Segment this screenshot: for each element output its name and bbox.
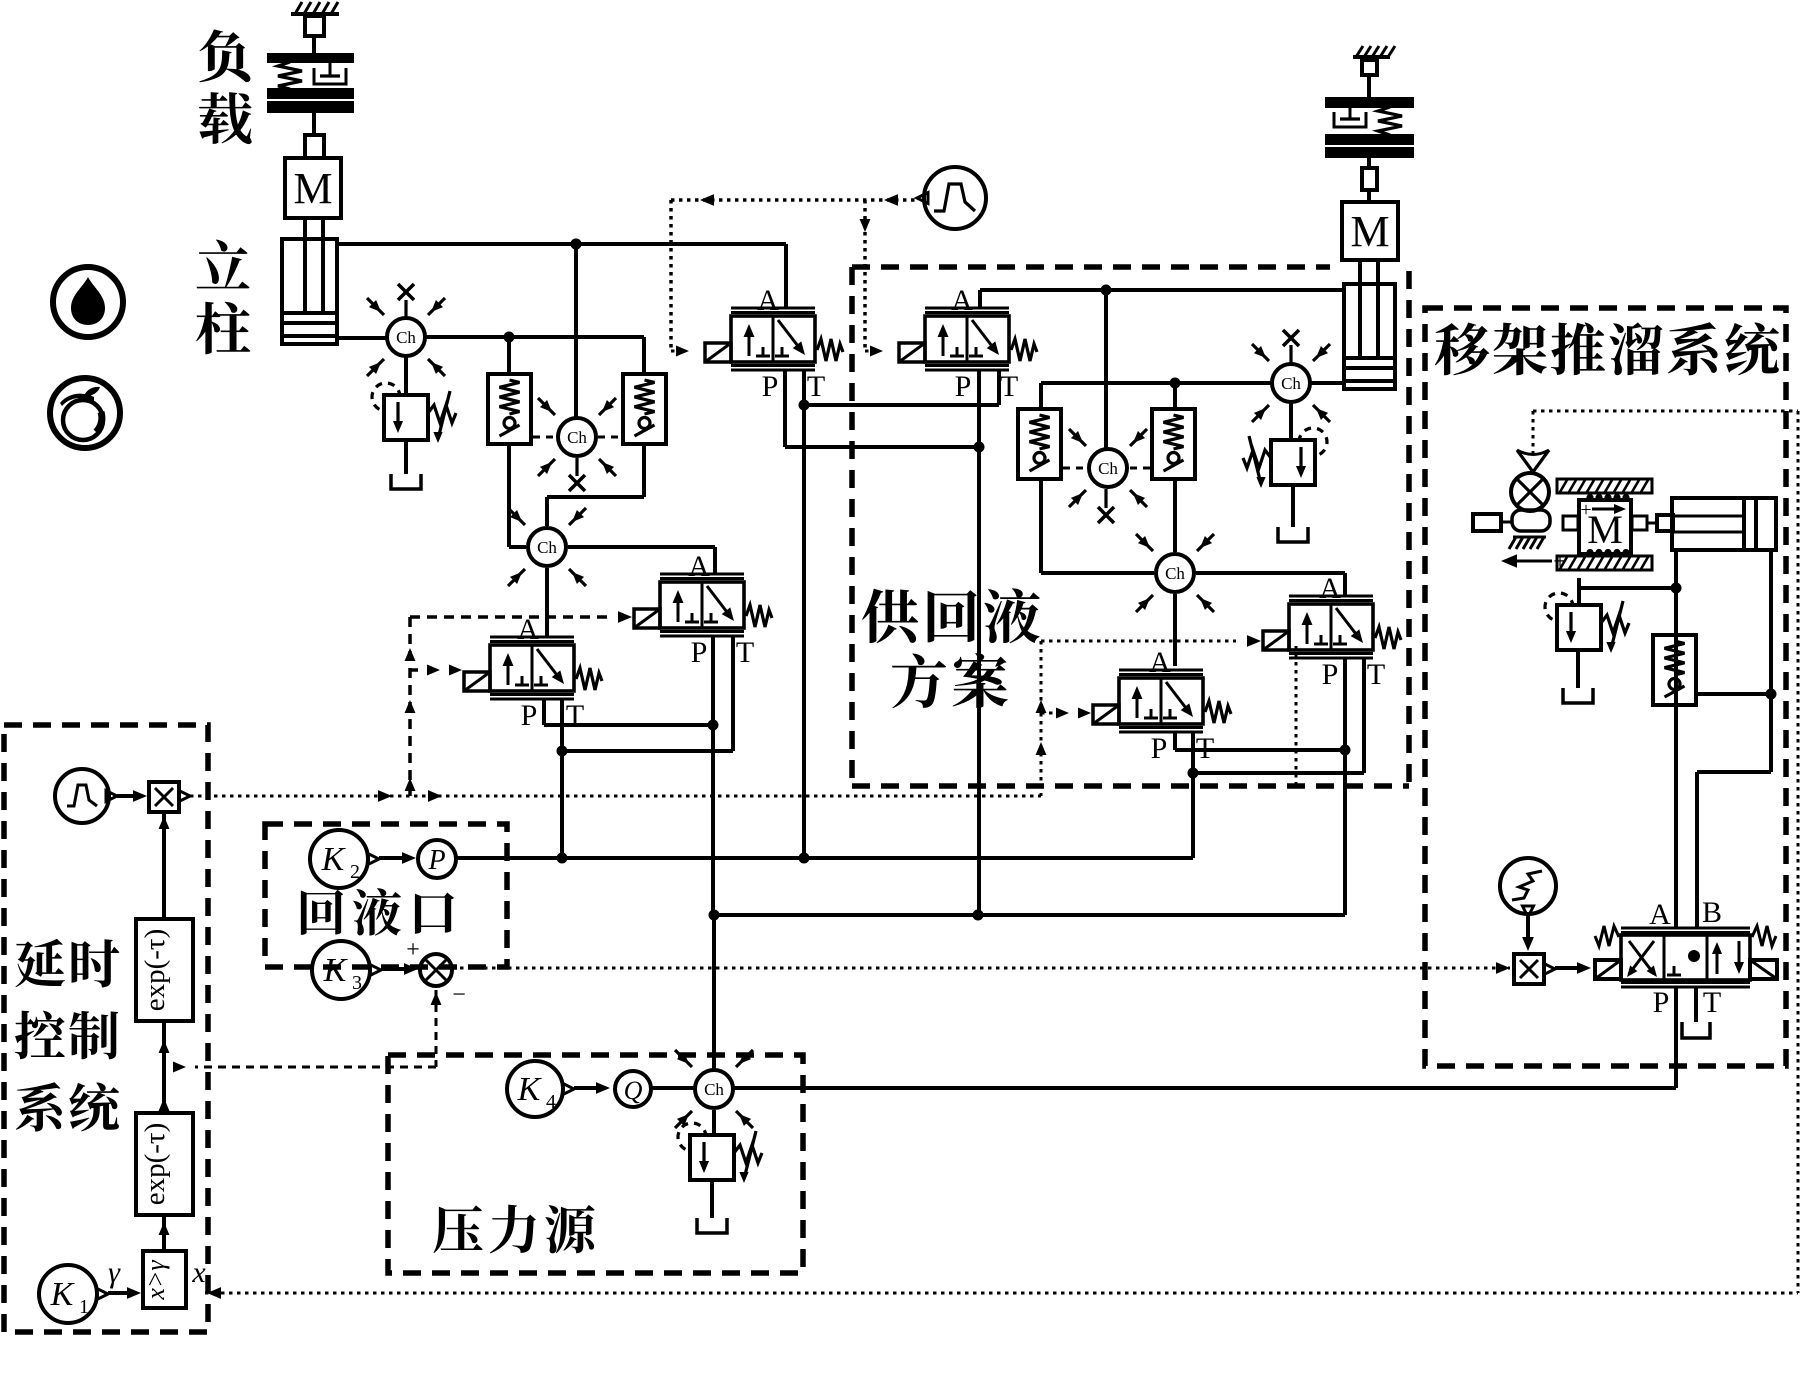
pilot line (CB3-Ch4-CB4) bbox=[1063, 467, 1086, 470]
wire bbox=[1367, 75, 1371, 98]
wire (cyl rod port to 4/3 valve B) bbox=[1769, 550, 1773, 772]
wire bbox=[710, 1180, 714, 1218]
wire (Ch6 to V5 A) bbox=[1196, 571, 1345, 575]
wire (branch to relief RV4) bbox=[1579, 586, 1676, 590]
svg-text:+: + bbox=[406, 937, 420, 963]
rod block left bbox=[305, 135, 324, 158]
signal source S3 (ramp) bbox=[1500, 858, 1556, 914]
pilot line (down to V1 solenoid) bbox=[669, 200, 673, 351]
svg-text:P: P bbox=[1151, 732, 1168, 765]
wire (T link to V3) bbox=[562, 749, 733, 753]
cylinder (立柱 column) left bbox=[282, 239, 337, 344]
wire (V1 T down to return line) bbox=[802, 370, 806, 858]
wire bbox=[1367, 157, 1371, 168]
wire bbox=[1367, 190, 1371, 202]
signal wire (comparator to exp2) bbox=[162, 1215, 166, 1251]
wire (Q to Ch7) bbox=[651, 1086, 694, 1090]
label 供回液方案 bbox=[862, 589, 918, 644]
svg-text:2: 2 bbox=[350, 861, 360, 883]
pump (crossed circle) bbox=[1511, 473, 1549, 511]
tank T4 bbox=[1563, 688, 1593, 703]
svg-text:A: A bbox=[1649, 898, 1671, 931]
watermark drop icon bbox=[53, 267, 123, 337]
svg-text:A: A bbox=[951, 284, 973, 317]
node (P junction V1/V2) bbox=[974, 442, 985, 453]
svg-text:1: 1 bbox=[79, 1296, 89, 1318]
wire bbox=[642, 337, 646, 374]
pilot check valve CB3 bbox=[1018, 409, 1061, 479]
svg-text:−: − bbox=[452, 982, 466, 1008]
wire (pump riser) bbox=[712, 915, 716, 1070]
supply line to 4/3 valve bbox=[733, 1086, 1676, 1090]
signal wire (exp2 to exp1) bbox=[162, 1021, 166, 1113]
V7 solenoid right bbox=[1750, 960, 1777, 979]
svg-text:3: 3 bbox=[352, 972, 362, 994]
signal line (S1 to valve pilots) bbox=[671, 198, 917, 202]
wire (V3 T down) bbox=[731, 636, 735, 751]
wire (Ch5 to relief RV2) bbox=[1289, 402, 1293, 440]
label 延时控制系统 bbox=[15, 939, 64, 987]
svg-text:T: T bbox=[1367, 658, 1385, 691]
wire (check boxes line to cylinder) bbox=[1041, 381, 1272, 385]
signal line (flow feedback to sum) bbox=[435, 990, 438, 1067]
pilot line (CB1-Ch2-CB2) bbox=[533, 436, 556, 439]
pilot line (to V6 solenoid) bbox=[1056, 708, 1069, 719]
svg-text:P: P bbox=[521, 699, 538, 732]
wire (CB2 to Ch3) bbox=[642, 444, 646, 497]
pilot check valve CB5 bbox=[1653, 635, 1696, 705]
check element Ch1 bbox=[387, 318, 425, 356]
svg-text:A: A bbox=[757, 284, 779, 317]
gain block K4 bbox=[507, 1061, 563, 1117]
spring (load suspension left) bbox=[278, 62, 302, 89]
guide rail top (hatched) bbox=[1557, 479, 1652, 493]
signal arrow (M2 to 4/3 valve) bbox=[1555, 966, 1577, 970]
spring (load suspension right) bbox=[1378, 107, 1402, 135]
wire (down to check-valve chain) bbox=[574, 244, 578, 418]
wire (T link to V5) bbox=[1193, 771, 1364, 775]
wire bbox=[1173, 383, 1177, 409]
svg-text:P: P bbox=[762, 370, 779, 403]
motion arrow (left, +) bbox=[1509, 560, 1552, 563]
pilot line (vertical to V3/V4 pilots) bbox=[408, 617, 412, 796]
wire bbox=[1039, 383, 1043, 409]
solenoid valve V3 bbox=[660, 582, 744, 628]
wire (V5 T down) bbox=[1362, 658, 1366, 773]
cylinder (column) right bbox=[1344, 284, 1395, 389]
svg-text:Ch: Ch bbox=[567, 428, 587, 447]
wire bbox=[1576, 650, 1580, 688]
solenoid valve V6 bbox=[1119, 678, 1203, 724]
svg-text:T: T bbox=[807, 370, 825, 403]
delay block exp(-tau) upper bbox=[136, 919, 193, 1021]
signal line (M1 output, delayed opening command) bbox=[190, 795, 1041, 798]
node (branch to Ch4) bbox=[1101, 285, 1112, 296]
signal wire (exp1 to M1) bbox=[162, 812, 166, 919]
svg-text:M: M bbox=[1587, 507, 1623, 552]
wire (V4 T down) bbox=[560, 699, 564, 858]
wire bbox=[1291, 485, 1295, 527]
svg-text:K: K bbox=[323, 952, 349, 989]
svg-text:K: K bbox=[50, 1276, 76, 1313]
wire (V4 P to V3 P junction) bbox=[542, 699, 546, 725]
svg-text:K: K bbox=[321, 841, 347, 878]
summing junction bbox=[420, 954, 452, 986]
dashed box 移架推溜系统 bbox=[1425, 308, 1786, 1066]
node (T junction V3/V4) bbox=[557, 746, 568, 757]
pilot line (to V3 solenoid) bbox=[410, 615, 608, 619]
blocked port X above Ch1 bbox=[404, 300, 407, 318]
svg-text:P: P bbox=[691, 636, 708, 669]
wire (Ch1 to relief valve RV1) bbox=[404, 356, 408, 395]
svg-text:γ: γ bbox=[108, 1256, 121, 1289]
tank T2 bbox=[1278, 527, 1308, 542]
svg-text:M: M bbox=[293, 164, 332, 213]
signal line (sum output) bbox=[452, 967, 1510, 970]
svg-text:Ch: Ch bbox=[396, 328, 416, 347]
svg-text:Ch: Ch bbox=[537, 538, 557, 557]
wire (V2 P down to main line) bbox=[977, 370, 981, 915]
comparator block x>gamma bbox=[143, 1251, 186, 1308]
guide rail bottom (hatched) bbox=[1557, 556, 1652, 570]
pilot line (to V4 solenoid) bbox=[427, 665, 440, 676]
signal source S2 (pulse) bbox=[55, 769, 109, 823]
check element Ch4 bbox=[1089, 449, 1127, 487]
solenoid valve V2 bbox=[925, 316, 1009, 362]
damper (load left) bbox=[329, 62, 332, 76]
V7 solenoid left bbox=[1595, 960, 1621, 979]
node bbox=[1766, 689, 1777, 700]
wire (V2 A to right cylinder) bbox=[978, 290, 982, 308]
svg-text:Ch: Ch bbox=[1098, 459, 1118, 478]
V7 left cell crossed arrows bbox=[1629, 941, 1654, 974]
signal arrow (K1 to comparator) bbox=[108, 1291, 128, 1295]
label 移架推溜系统 bbox=[1435, 323, 1489, 376]
wire bbox=[507, 337, 511, 374]
signal arrow (K2 to P) bbox=[379, 856, 404, 860]
ground hatch (pump) bbox=[1513, 536, 1546, 539]
node bbox=[1671, 583, 1682, 594]
node bbox=[557, 853, 568, 864]
piston rod right cylinder bbox=[1358, 260, 1362, 358]
pump body capsule bbox=[1512, 510, 1550, 531]
ground (fixed support, left load) bbox=[291, 12, 339, 16]
wire bbox=[312, 112, 316, 135]
check element Ch5 bbox=[1272, 364, 1310, 402]
node (P junction V5/V6) bbox=[1340, 745, 1351, 756]
wire (Ch7 to relief RV3) bbox=[712, 1110, 716, 1135]
load mass plates left bbox=[268, 54, 353, 62]
solenoid valve V1 bbox=[731, 316, 815, 362]
blocked port X below Ch4 bbox=[1104, 489, 1107, 508]
guide shoe left bbox=[1563, 516, 1578, 530]
wire (CB1 to Ch3) bbox=[507, 444, 511, 547]
tank T5 bbox=[1682, 1022, 1710, 1038]
flow source Q bbox=[615, 1071, 651, 1107]
svg-text:exp(-τ): exp(-τ) bbox=[139, 929, 171, 1012]
V7 spring right bbox=[1752, 926, 1776, 946]
node bbox=[709, 910, 720, 921]
svg-text:Ch: Ch bbox=[1281, 374, 1301, 393]
pilot check valve CB4 bbox=[1152, 409, 1195, 479]
dashed box 供回液方案 bbox=[849, 267, 855, 786]
dotted enclosure (V6 pilot group, right edge) bbox=[1295, 646, 1298, 786]
V7 centre cell blocked bbox=[1667, 974, 1681, 977]
node bbox=[973, 910, 984, 921]
V7 right cell arrows bbox=[1716, 947, 1719, 974]
check element Ch6 bbox=[1156, 554, 1194, 592]
wire (V6 T down) bbox=[1191, 732, 1195, 858]
relief valve RV1 bbox=[384, 395, 428, 440]
solenoid valve V4 bbox=[490, 645, 574, 691]
position feedback line (x input) bbox=[205, 1292, 1798, 1295]
wire (cylinder top port to valve V1 A) bbox=[337, 242, 786, 246]
wire (CB3 to Ch6) bbox=[1039, 478, 1043, 573]
svg-text:M: M bbox=[1350, 207, 1389, 256]
piston rod left cylinder bbox=[303, 218, 307, 313]
pilot line (vertical to V5/V6 pilots) bbox=[1040, 641, 1043, 796]
wire (Ch6 to V6 A) bbox=[1173, 594, 1177, 666]
svg-text:x>γ: x>γ bbox=[141, 1260, 170, 1301]
svg-text:Ch: Ch bbox=[1165, 564, 1185, 583]
node (branch to Ch chain) bbox=[571, 239, 582, 250]
node (check box CB1 tap) bbox=[504, 332, 515, 343]
gain block K3 bbox=[312, 941, 370, 999]
check element Ch7 (pump port) bbox=[695, 1070, 733, 1108]
pressure sensor P bbox=[418, 840, 456, 878]
svg-text:P: P bbox=[1653, 986, 1670, 1019]
relief valve RV4 bbox=[1557, 605, 1601, 650]
wire bbox=[312, 36, 316, 54]
dashed box 压力源 bbox=[388, 1055, 803, 1273]
svg-text:exp(-τ): exp(-τ) bbox=[139, 1123, 171, 1206]
svg-text:B: B bbox=[1702, 896, 1722, 929]
wire bbox=[404, 440, 408, 474]
svg-text:P: P bbox=[427, 845, 445, 876]
pilot line (down to V2 solenoid) bbox=[863, 200, 867, 351]
V7 spring left bbox=[1595, 926, 1619, 946]
return line (to 回液口 P sensor) bbox=[456, 856, 1193, 860]
node (T junction V5/V6) bbox=[1188, 768, 1199, 779]
pump anchor block bbox=[1473, 514, 1501, 531]
wire (V1 P down) bbox=[783, 370, 787, 447]
svg-text:T: T bbox=[1000, 370, 1018, 403]
multiplier M2 bbox=[1514, 954, 1544, 984]
relief valve RV2 bbox=[1271, 440, 1315, 485]
relief valve RV3 bbox=[690, 1135, 734, 1180]
watermark apple icon bbox=[50, 378, 120, 448]
mass M right bbox=[1342, 202, 1398, 260]
linear motor M (support) bbox=[1579, 500, 1631, 554]
wire (V7 T to tank) bbox=[1694, 987, 1698, 1022]
wire (Ch3 to valve V4 A) bbox=[545, 568, 549, 637]
wire (P line down to main line) bbox=[711, 725, 715, 915]
blocked port X below Ch2 bbox=[575, 458, 578, 476]
wire (P link V1-V2) bbox=[785, 445, 979, 449]
check element Ch3 bbox=[528, 528, 566, 566]
label 立柱 (column) bbox=[197, 240, 250, 289]
gain block K2 bbox=[310, 830, 368, 888]
load mass plates right bbox=[1326, 98, 1413, 107]
wire (cylinder bottom port to Ch1) bbox=[337, 336, 387, 340]
tank T3 bbox=[697, 1218, 727, 1233]
svg-text:P: P bbox=[955, 370, 972, 403]
node (CB4 tap) bbox=[1170, 378, 1181, 389]
multiplier M1 bbox=[149, 782, 179, 812]
pilot check valve CB2 bbox=[623, 374, 666, 444]
main pressure line bbox=[714, 913, 1345, 917]
node (T junction V1/V2) bbox=[799, 400, 810, 411]
wire (V2 T link) bbox=[997, 370, 1001, 405]
wire (V6 P to V5 P junction) bbox=[1173, 732, 1177, 750]
wire (cyl bottom port down) bbox=[1674, 550, 1678, 588]
signal arrow (K3 to sum) bbox=[381, 967, 404, 971]
signal source S1 (pulse) bbox=[924, 167, 986, 229]
pilot tap line (CB5) bbox=[1698, 692, 1771, 696]
svg-text:Q: Q bbox=[624, 1076, 643, 1105]
pilot line (to V5 solenoid) bbox=[1041, 640, 1236, 643]
pilot check valve CB1 bbox=[488, 374, 531, 444]
signal arrow (K4 to Q) bbox=[574, 1086, 597, 1090]
svg-text:T: T bbox=[566, 699, 584, 732]
svg-text:4: 4 bbox=[546, 1091, 556, 1113]
node bbox=[571, 239, 582, 250]
dashed box 回液口 bbox=[265, 824, 507, 967]
label 负载 (load) bbox=[199, 29, 250, 82]
solenoid valve V5 bbox=[1289, 604, 1373, 650]
wire (check to 4/3 valve A) bbox=[1674, 588, 1678, 928]
svg-text:T: T bbox=[1703, 986, 1721, 1019]
push cylinder (推溜千斤顶) bbox=[1672, 498, 1776, 550]
svg-text:A: A bbox=[1149, 646, 1171, 679]
node (P junction V3/V4) bbox=[708, 720, 719, 731]
wire (CB4 to Ch6) bbox=[1173, 478, 1177, 552]
gain block K1 bbox=[39, 1265, 97, 1323]
svg-text:A: A bbox=[1319, 572, 1341, 605]
signal arrow (S3 to multiplier M2) bbox=[1526, 917, 1530, 938]
label 回液口 bbox=[301, 890, 343, 935]
push cylinder rod block bbox=[1657, 515, 1673, 531]
node bbox=[799, 853, 810, 864]
delay block exp(-tau) lower bbox=[136, 1113, 193, 1215]
svg-text:Ch: Ch bbox=[704, 1080, 724, 1099]
svg-text:+: + bbox=[1580, 499, 1591, 521]
tank T1 bbox=[391, 474, 421, 489]
svg-text:A: A bbox=[688, 550, 710, 583]
wire (V3 P down) bbox=[711, 636, 715, 725]
signal line (sum to M2) bbox=[1496, 962, 1510, 974]
wire (Ch3 to valve V3 A) bbox=[568, 545, 715, 549]
ground (fixed support, right load) bbox=[1353, 55, 1390, 59]
wire (rod link) bbox=[1647, 522, 1657, 525]
check element Ch2 bbox=[558, 418, 596, 456]
svg-text:K: K bbox=[517, 1071, 543, 1108]
mass M left bbox=[285, 158, 341, 218]
wire (Ch1 to check boxes) bbox=[425, 335, 644, 339]
rod block right bbox=[1362, 168, 1377, 190]
damper (load right) bbox=[1349, 107, 1352, 119]
label 压力源 bbox=[434, 1205, 483, 1253]
load anchor block left bbox=[305, 16, 324, 36]
guide shoe right bbox=[1632, 516, 1647, 530]
proportional valve V7 body bbox=[1621, 935, 1750, 980]
svg-text:P: P bbox=[1322, 658, 1339, 691]
pump suction funnel bbox=[1517, 450, 1549, 472]
load anchor block right bbox=[1362, 60, 1377, 75]
dashed box 延时控制系统 bbox=[4, 725, 208, 1332]
blocked port X above Ch5 bbox=[1289, 345, 1292, 364]
signal arrow (S2 to multiplier) bbox=[117, 794, 134, 798]
wire (V2 A line down branch to Ch4) bbox=[1104, 290, 1108, 449]
svg-text:x: x bbox=[191, 1256, 206, 1289]
svg-text:T: T bbox=[736, 636, 754, 669]
wire (V5 P down) bbox=[1343, 658, 1347, 915]
